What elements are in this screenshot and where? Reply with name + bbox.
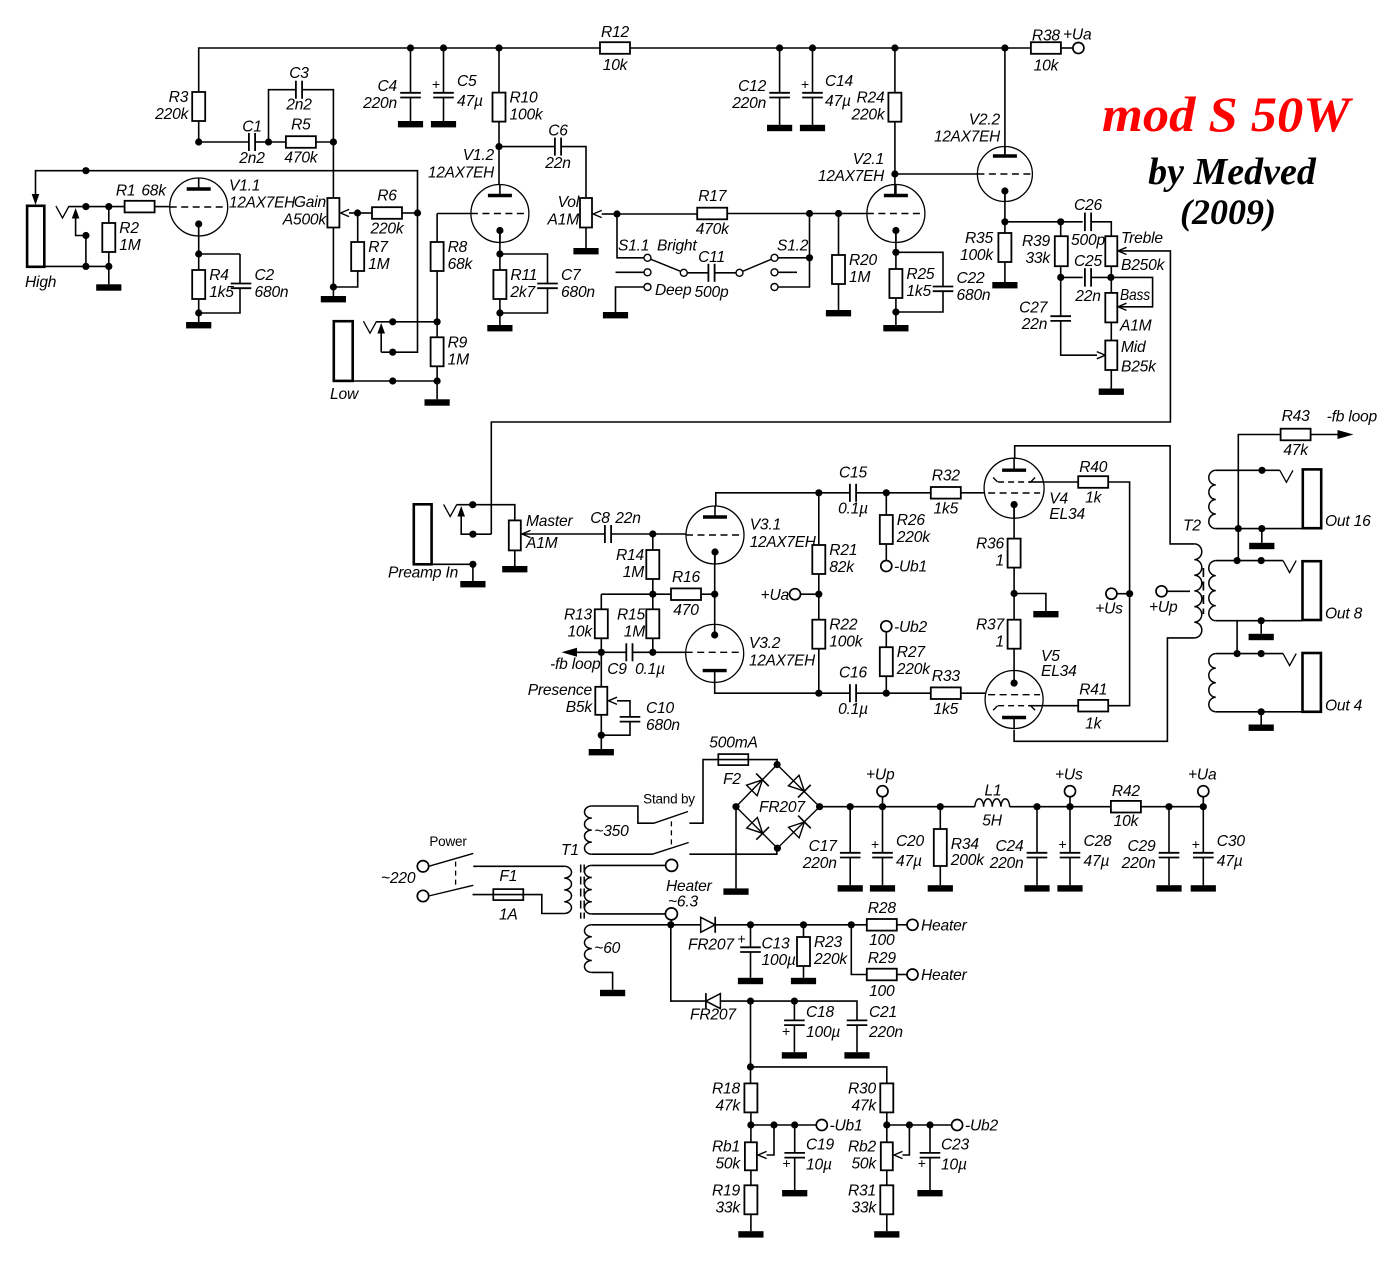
transformer T2 core [1202, 568, 1204, 614]
svg-text:+Us: +Us [1095, 601, 1123, 618]
svg-text:100: 100 [869, 932, 895, 949]
svg-text:T1: T1 [561, 842, 579, 859]
junction +Us line [1126, 590, 1133, 597]
svg-text:2k7: 2k7 [509, 284, 536, 301]
wire +Ua top supply rail left part [199, 48, 600, 142]
potentiometer Presence [528, 682, 608, 716]
resistor R21 [812, 542, 857, 576]
junction sec4 top [1234, 650, 1265, 657]
wire Treble to Bass pot [1110, 266, 1112, 293]
svg-text:C14: C14 [825, 73, 854, 90]
svg-text:C24: C24 [995, 838, 1024, 855]
ground below C21 [844, 1052, 869, 1058]
capacitor C7 [537, 267, 595, 301]
svg-text:R38: R38 [1032, 28, 1061, 45]
wire rail R12 to V2.2 [630, 47, 1005, 49]
wire R14 to node [652, 579, 654, 609]
resistor R25 [889, 266, 935, 300]
wire V5 screen to R41 [1043, 705, 1078, 707]
ground secondary 4 [1249, 725, 1274, 731]
junction R14-R15-R16 [649, 591, 656, 598]
svg-text:220k: 220k [896, 661, 931, 678]
svg-text:C4: C4 [377, 78, 397, 95]
svg-text:100µ: 100µ [806, 1024, 840, 1041]
junction V1.1 plate node [195, 138, 202, 145]
junction cathodes-R16 [711, 591, 718, 598]
junction rail nodes [407, 44, 1009, 51]
svg-text:220n: 220n [989, 855, 1024, 872]
Treble pot wiper arrow [1118, 247, 1127, 254]
wire pole to C11 [687, 272, 708, 274]
resistor R28 [867, 900, 897, 949]
wire V5 plate to T2 primary bottom [1014, 638, 1194, 741]
svg-text:R20: R20 [849, 252, 878, 269]
wire R9 to ground [436, 366, 438, 399]
wire R19 to ground [750, 1214, 752, 1231]
wire to cathode ground [1014, 594, 1046, 612]
wire rail to C28 [1069, 807, 1071, 853]
capacitor C27 [1019, 300, 1071, 334]
svg-text:+: + [738, 931, 746, 947]
terminal mains top [417, 861, 428, 872]
ground below R35 [992, 282, 1017, 288]
junction +Us rail nodes [1033, 803, 1073, 810]
wire bias to divider R18-R30 [750, 1001, 752, 1083]
junction Preamp NC wire [469, 531, 476, 538]
svg-text:5H: 5H [982, 813, 1002, 830]
svg-text:A1M: A1M [547, 212, 580, 229]
junction C15 row-R21 [815, 489, 822, 496]
wire V2.1 cathode to R25 [895, 231, 897, 270]
wire ~350 bottom to standby [592, 853, 653, 855]
wire Master pot to ground [514, 550, 516, 566]
svg-text:~350: ~350 [594, 823, 629, 840]
wire R8 top to V1.2 grid [437, 213, 471, 215]
Out 16 jack tip V [1280, 470, 1293, 482]
svg-text:-Ub2: -Ub2 [965, 1118, 999, 1135]
ground bridge negative [723, 888, 748, 894]
wire rail to C12 [779, 48, 781, 93]
svg-text:C12: C12 [738, 78, 767, 95]
wire R26 to -Ub1 [885, 544, 887, 560]
wire R6 to node [402, 212, 418, 214]
ground below R25 [883, 325, 908, 331]
wire to R13 top [600, 594, 602, 609]
svg-text:12AX7EH: 12AX7EH [750, 534, 817, 551]
wire -Ub2 row [887, 1124, 952, 1126]
svg-text:Rb2: Rb2 [848, 1139, 877, 1156]
svg-text:33k: 33k [1025, 250, 1051, 267]
wire V4 cathode to R36 [1013, 505, 1015, 539]
resistor R29 [867, 950, 897, 1000]
junction sec4 bottom [1258, 708, 1265, 715]
capacitor C23 [918, 1137, 970, 1174]
junction HT rail nodes [847, 803, 944, 810]
svg-text:C6: C6 [548, 123, 568, 140]
wire rail to C30 [1202, 807, 1204, 853]
wire to C22 [896, 252, 943, 286]
wire R18 to Rb1 [750, 1112, 752, 1142]
terminal +Ua top [1073, 43, 1084, 54]
junction S1.2 node [806, 254, 813, 261]
capacitor C26 [1071, 197, 1105, 249]
svg-text:V3.1: V3.1 [750, 516, 781, 533]
junction -Ub2 row [883, 1121, 933, 1128]
wire R17 to V2.1 grid [727, 213, 867, 215]
svg-text:B250k: B250k [1121, 257, 1166, 274]
svg-text:R41: R41 [1079, 682, 1107, 699]
svg-text:+: + [1192, 836, 1200, 852]
svg-text:by Medved: by Medved [1148, 151, 1317, 193]
svg-text:1k5: 1k5 [934, 701, 959, 718]
svg-text:V2.1: V2.1 [853, 151, 884, 168]
wire to R30 [751, 1067, 887, 1084]
resistor R14 [616, 547, 659, 581]
wire R21 to R22 [818, 574, 820, 620]
capacitor C6 [544, 123, 570, 173]
svg-text:R4: R4 [209, 267, 229, 284]
svg-text:220n: 220n [1121, 855, 1156, 872]
wire secondary 16 bottom [1216, 528, 1303, 530]
terminal mains bottom [417, 890, 428, 901]
svg-text:~220: ~220 [381, 870, 416, 887]
capacitor C28 [1059, 833, 1113, 870]
switch S1.2 [743, 254, 778, 290]
wire R33 to V5 grid [961, 692, 985, 694]
resistor R23 [797, 934, 848, 968]
svg-text:100k: 100k [960, 247, 994, 264]
svg-text:1k5: 1k5 [209, 284, 234, 301]
wire S1.2 bottom to grid node [778, 214, 810, 288]
wire R16 to cathode line [701, 593, 715, 595]
wire C20 to ground [882, 858, 884, 886]
svg-text:+: + [783, 1155, 791, 1171]
svg-text:500p: 500p [1071, 232, 1105, 249]
wire rail to R24 [894, 48, 896, 93]
wire Vol pot to ground [585, 228, 587, 249]
junction R4-C2 bottom [195, 309, 202, 316]
wire R36 to R37 [1013, 568, 1015, 620]
svg-text:12AX7EH: 12AX7EH [818, 168, 885, 185]
svg-text:10k: 10k [1034, 58, 1060, 75]
junction C16-R27 [883, 690, 890, 697]
svg-text:220k: 220k [369, 221, 404, 238]
transformer T1 bias winding ~60 [584, 925, 591, 973]
wire C15 row to R21 [818, 493, 820, 545]
svg-text:68k: 68k [141, 182, 167, 199]
ground below C12 [767, 125, 792, 131]
svg-text:0.1µ: 0.1µ [838, 501, 868, 518]
svg-text:C7: C7 [561, 267, 582, 284]
wire R32 to V4 grid [961, 492, 985, 494]
svg-text:0.1µ: 0.1µ [635, 661, 665, 678]
wire R37 to V5 cathode [1013, 649, 1015, 671]
ground below C14 [800, 125, 825, 131]
wire C12 to ground [779, 98, 781, 125]
svg-text:Treble: Treble [1121, 230, 1163, 247]
svg-text:+Ua: +Ua [1188, 767, 1217, 784]
switch S1 pole 2 contact [736, 269, 743, 276]
wire C13 to ground [750, 952, 752, 978]
resistor R22 [812, 617, 863, 651]
ground below C5 [431, 121, 456, 127]
junction Preamp tip wire [469, 501, 476, 508]
wire R43 feedback tap [1238, 435, 1280, 561]
resistor R40 [1078, 459, 1108, 507]
resistor R24 [850, 90, 901, 124]
resistor R34 [934, 829, 985, 869]
terminal Heater out 1 [907, 919, 918, 930]
wire C2 top lead [239, 254, 241, 284]
wire node to R13 [601, 593, 653, 595]
Preamp In NC contact arrow [457, 506, 465, 517]
wire C8 to V3.1 grid [611, 533, 686, 535]
ground below Gain pot [321, 296, 346, 302]
wire R31 to ground [886, 1214, 888, 1231]
resistor R9 [431, 334, 469, 368]
capacitor C20 [871, 833, 925, 870]
bridge rectifier FR207 [736, 765, 820, 849]
junction C1-R5-C3 [265, 138, 272, 145]
tube V4 EL34 [984, 458, 1085, 523]
wire to R9 [436, 322, 438, 338]
wire diode to R28 [715, 924, 867, 926]
ground below R34 [928, 885, 953, 891]
svg-text:22n: 22n [1074, 288, 1100, 305]
svg-text:1M: 1M [849, 269, 870, 286]
switch S1 pole contact [680, 269, 687, 276]
svg-text:1M: 1M [368, 256, 389, 273]
wire C25 row left [1061, 276, 1083, 278]
Bass pot wiper arrow [1118, 303, 1127, 310]
svg-text:100: 100 [869, 983, 895, 1000]
capacitor C19 [783, 1137, 835, 1174]
Master pot wiper arrow [522, 530, 531, 537]
junction R5-C3-Gain [330, 138, 337, 145]
transformer T1 HT winding ~350 [584, 806, 591, 854]
junction sec16 bottom [1235, 525, 1266, 532]
svg-text:500mA: 500mA [709, 735, 757, 752]
svg-text:C16: C16 [839, 665, 868, 682]
svg-text:R14: R14 [616, 547, 645, 564]
junction Low NC wire [389, 349, 396, 356]
wire plate to C1 [199, 141, 249, 143]
svg-text:-Ub1: -Ub1 [830, 1118, 863, 1135]
junction R39-C25-C27 [1057, 274, 1064, 281]
capacitor C16 [838, 665, 868, 719]
svg-text:C1: C1 [242, 119, 262, 136]
wire rail to R38 [1005, 47, 1031, 49]
ground below C19 [782, 1190, 807, 1196]
switch Stand by [654, 812, 688, 824]
wire Low NC stub [380, 334, 382, 353]
svg-text:V1.2: V1.2 [463, 147, 495, 164]
wire bias node down to bias diode [671, 925, 706, 1001]
arrow -fb loop input [562, 648, 578, 657]
svg-text:82k: 82k [829, 559, 855, 576]
Preamp In tip contact V [444, 505, 457, 517]
svg-text:C20: C20 [896, 833, 925, 850]
svg-text:50k: 50k [851, 1156, 877, 1173]
svg-text:220k: 220k [154, 106, 189, 123]
svg-text:V1.1: V1.1 [229, 178, 260, 195]
svg-text:220n: 220n [731, 95, 766, 112]
resistor R37 [976, 617, 1021, 651]
svg-text:1k: 1k [1085, 490, 1102, 507]
svg-text:A500k: A500k [282, 212, 328, 229]
svg-text:12AX7EH: 12AX7EH [229, 195, 296, 212]
svg-text:C25: C25 [1074, 253, 1103, 270]
svg-text:100k: 100k [510, 107, 544, 124]
Presence pot wiper arrow [609, 697, 618, 704]
wire bias top to diode [592, 924, 701, 926]
wire Gain pot bottom to ground [332, 228, 334, 297]
wire F1 to T1 primary bottom [523, 895, 564, 914]
svg-text:220k: 220k [896, 529, 931, 546]
potentiometer Master [509, 513, 574, 552]
resistor R17 [696, 188, 730, 238]
svg-text:22n: 22n [614, 510, 640, 527]
junction R10-C6 [495, 143, 502, 150]
wire sec8 to sec3 link [1236, 621, 1238, 654]
potentiometer Bass [1105, 287, 1151, 335]
wire to R23 [803, 925, 805, 937]
wire C5 to ground [443, 98, 445, 122]
svg-text:R22: R22 [829, 617, 858, 634]
wire +Us terminal to line [1117, 593, 1126, 595]
capacitor C1 [238, 119, 265, 168]
jack Out 4 [1303, 653, 1321, 712]
wire V1.1 cathode to R4 [198, 224, 200, 270]
wire sec4 ground stub [1260, 712, 1262, 725]
svg-text:R7: R7 [368, 239, 389, 256]
svg-text:47k: 47k [851, 1097, 877, 1114]
resistor R11 [493, 267, 537, 301]
svg-text:S1.1: S1.1 [618, 238, 649, 255]
capacitor C18 [782, 1004, 840, 1041]
diode bridge bottom-left [746, 816, 769, 839]
wire V1.2 grid node to R8 [436, 214, 438, 243]
junction V2.1 grid nodes [806, 210, 842, 217]
capacitor C11 [695, 249, 729, 301]
capacitor C10 [620, 716, 641, 718]
svg-text:220k: 220k [850, 107, 885, 124]
svg-text:Heater: Heater [921, 917, 968, 934]
svg-text:1k5: 1k5 [934, 500, 959, 517]
capacitor C8 [604, 525, 606, 543]
svg-text:10k: 10k [1114, 813, 1140, 830]
svg-text:1: 1 [996, 553, 1004, 570]
svg-text:12AX7EH: 12AX7EH [934, 129, 1001, 146]
capacitor C5 [432, 73, 483, 110]
capacitor C24 [989, 838, 1048, 872]
wire down to sleeve [85, 236, 87, 267]
wire S1.2 mid stub [778, 271, 797, 273]
svg-text:220n: 220n [362, 95, 397, 112]
arrow -fb loop output [1311, 434, 1338, 436]
junction C15-R26 [883, 489, 890, 496]
svg-text:680n: 680n [561, 284, 595, 301]
capacitor C25 [1074, 253, 1103, 305]
svg-text:A1M: A1M [1119, 318, 1152, 335]
wire R38 to +Ua terminal [1061, 47, 1073, 49]
svg-text:100k: 100k [829, 634, 863, 651]
svg-text:High: High [25, 274, 56, 291]
resistor R16 [671, 569, 701, 619]
potentiometer Treble [1105, 230, 1165, 274]
terminal Heater winding top [666, 859, 678, 871]
junction Gain wiper-R6-R7 [354, 209, 361, 216]
svg-text:220n: 220n [868, 1024, 903, 1041]
resistor R36 [976, 536, 1021, 570]
svg-text:R3: R3 [169, 89, 189, 106]
wire R15 to C9 node [652, 638, 654, 652]
wire V3.1 plate to C15 row [716, 493, 819, 506]
svg-text:C29: C29 [1127, 838, 1156, 855]
tube V3.1 12AX7EH [686, 506, 817, 564]
junction Vol wiper node [613, 210, 620, 217]
wire S1.1 mid stub [616, 271, 645, 273]
svg-text:Master: Master [526, 513, 573, 530]
transformer T1 heater winding [585, 865, 592, 914]
wire R8 to Low tip node [436, 271, 438, 322]
ground below Deep contact [603, 312, 628, 318]
wire R28 to terminal [897, 924, 907, 926]
svg-text:R5: R5 [291, 117, 311, 134]
svg-text:R40: R40 [1079, 459, 1108, 476]
wire to R26 [885, 493, 887, 515]
capacitor C3 [285, 65, 312, 114]
wire to V2.2 grid [895, 173, 978, 175]
junction R25-C22 bottom [892, 308, 899, 315]
wire C1 to R5 [255, 141, 268, 143]
tube V1.2 12AX7EH [428, 147, 529, 243]
svg-text:47µ: 47µ [896, 853, 922, 870]
capacitor C2 [231, 267, 289, 301]
svg-text:2n2: 2n2 [285, 97, 312, 114]
wire C19 to ground [794, 1158, 796, 1190]
svg-text:1M: 1M [448, 351, 469, 368]
junction -Ub1 row [747, 1121, 798, 1128]
ground below C20 [870, 885, 895, 891]
inductor L1 5H [975, 799, 1010, 807]
svg-text:680n: 680n [255, 284, 289, 301]
svg-text:C27: C27 [1019, 300, 1049, 317]
wire Low tip [377, 321, 438, 323]
ground below R11 [487, 325, 512, 331]
svg-text:-fb loop: -fb loop [550, 656, 601, 673]
wire C15 to R32 [856, 492, 931, 494]
svg-text:C18: C18 [806, 1004, 835, 1021]
wire -Ub1 row [751, 1124, 816, 1126]
wire mains top to T1 [473, 865, 564, 867]
wire sleeve to ground [472, 564, 474, 581]
wire C28 to ground [1069, 858, 1071, 886]
wire rail to V2.2 plate [1004, 48, 1006, 157]
wire node to Gain pot [332, 142, 334, 198]
svg-text:R12: R12 [601, 24, 630, 41]
svg-text:EL34: EL34 [1049, 506, 1085, 523]
wire L1 to R42 [1010, 806, 1111, 808]
wire secondary 4 bottom [1216, 711, 1303, 713]
wire to C13 [750, 925, 752, 948]
svg-text:C30: C30 [1217, 833, 1246, 850]
jack High input [27, 206, 44, 267]
transformer T1 core [580, 865, 582, 919]
resistor R41 [1078, 682, 1108, 733]
svg-text:+: + [432, 76, 440, 92]
terminal -Ub2 psu [952, 1120, 963, 1131]
